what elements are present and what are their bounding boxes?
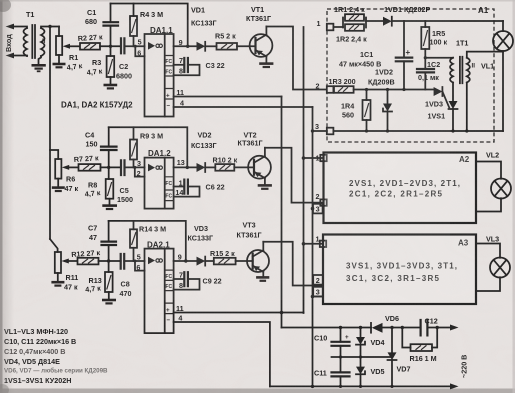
mains arrow top: [450, 325, 459, 331]
ground under T1: [32, 64, 46, 67]
node ch3 filter: [107, 259, 110, 262]
wire to 1VD1: [366, 20, 383, 22]
wire primary bottom lead: [12, 55, 27, 58]
scan mottle: [0, 0, 1, 1]
wire mid rail: [332, 356, 393, 358]
mains arrow bottom: [450, 383, 459, 389]
A1 pin 1 square: [327, 24, 334, 31]
input arrow bottom: [6, 53, 15, 59]
wire R7 to C5: [101, 166, 122, 168]
wire VT1 collector to A1 pin 2: [266, 27, 326, 90]
ground under R3: [104, 84, 118, 87]
ground under R1: [53, 63, 66, 66]
A1 pin 3 square: [327, 128, 334, 135]
lamp VL2 wires: [476, 162, 501, 179]
wire VT3 collector to A3 pin 2: [263, 242, 323, 286]
block A2 box: [324, 153, 477, 224]
bus +U supply: [281, 97, 283, 328]
A2 pin 3 boxed: [313, 204, 323, 214]
wire C2 to op-amp inputs: [124, 45, 144, 47]
ground under R8: [102, 204, 117, 207]
wire mains top line: [282, 327, 372, 329]
resistor R16 parallel loop: [402, 328, 410, 348]
bus anode supply to pins 1: [303, 27, 305, 313]
transformer T1 secondary winding: [41, 28, 45, 56]
potentiometer R1: [58, 27, 60, 37]
wire R10 to VT2 base: [234, 166, 254, 168]
transformer T1 core: [32, 25, 35, 58]
wire ch3 feedback rail: [109, 221, 186, 261]
potentiometer R11: [55, 252, 61, 273]
ground under VT1 emitter: [259, 62, 273, 65]
A1 pin 2 square: [327, 86, 334, 93]
node ch1 filter: [109, 45, 112, 48]
ground under R13: [102, 299, 116, 302]
wire ch1 feedback rail: [111, 4, 188, 47]
R1 tap arrow: [67, 45, 79, 47]
wire node to 1T1 primary: [425, 57, 453, 59]
channel 3 : wire bus branch to R11: [50, 239, 58, 252]
ground under VT3 emitter: [256, 276, 269, 279]
wire mains bottom line: [270, 385, 452, 387]
bus common to pins 3: [312, 107, 314, 386]
wire A1 top rail: [392, 20, 503, 22]
lamp VL3 wires: [476, 244, 500, 258]
wire 1T1 secondary top to lamp: [467, 52, 503, 58]
wire 1T1 secondary bottom: [466, 83, 468, 132]
A3 pin 3 boxed: [313, 287, 323, 297]
potentiometer R6: [55, 159, 61, 179]
ground under VT2 emitter: [258, 184, 272, 187]
ground under R11: [51, 281, 64, 284]
wire C5 to op-amp inputs: [125, 166, 145, 168]
node ch2 filter: [107, 166, 110, 169]
scan tone: lighter block interiors and vignette: [325, 154, 474, 221]
block A3 box: [323, 235, 476, 305]
wire secondary top to R1: [41, 27, 59, 29]
wire A1 bottom rail: [313, 130, 504, 132]
wire secondary bottom lead: [39, 56, 42, 65]
wire R15 to VT3 base: [236, 260, 253, 262]
A3 pin 2 boxed: [313, 275, 323, 285]
ground under R6: [52, 186, 65, 189]
wire A1 gate line: [354, 89, 434, 91]
transformer T1 primary winding: [24, 28, 28, 56]
wire ch2 feedback rail: [109, 127, 188, 167]
input arrow top: [6, 24, 15, 30]
wire VT2 collector to A2 pin 2: [265, 148, 324, 203]
wire input distribution bus: [49, 27, 51, 240]
node +U bus joins pin11 wire: [280, 311, 284, 315]
block A1 dashed border: [327, 9, 494, 142]
wire primary top lead: [12, 27, 27, 29]
wire C8 to op-amp inputs: [124, 260, 144, 262]
wire R2 to C2: [100, 45, 121, 47]
node input bus top: [48, 25, 51, 28]
wire R5 to VT1 base: [237, 45, 256, 47]
scan edge shading: [0, 0, 3, 393]
wire R12 to C8: [99, 260, 121, 262]
wire A3 pin 3 stub: [313, 296, 324, 298]
channel 2 : wire bus branch to R6: [50, 150, 58, 159]
wire A1 pin1 to R parallel: [333, 26, 343, 28]
